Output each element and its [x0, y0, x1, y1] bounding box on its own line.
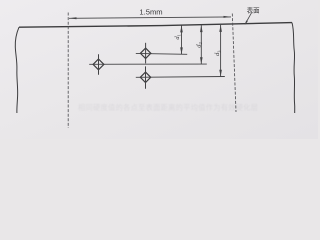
svg-text:相同硬度值的各点至表面距离的平均值作为有效硬化层: 相同硬度值的各点至表面距离的平均值作为有效硬化层	[78, 103, 258, 112]
svg-text:表面: 表面	[247, 6, 260, 15]
svg-text:1.5mm: 1.5mm	[139, 8, 162, 17]
